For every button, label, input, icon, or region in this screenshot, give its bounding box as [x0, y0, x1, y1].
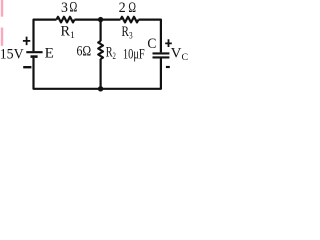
- svg-text:10μF: 10μF: [123, 47, 145, 63]
- resistor R3 zigzag: [121, 17, 139, 23]
- capacitor C bottom plate: [153, 56, 170, 58]
- svg-text:E: E: [45, 45, 54, 61]
- svg-text:6Ω: 6Ω: [77, 44, 92, 60]
- svg-text:C: C: [147, 36, 156, 52]
- page margin stripe (pink) upper segment: [1, 0, 3, 17]
- capacitor C top plate: [153, 52, 170, 54]
- wire: top-right corner (R3 to capacitor top): [139, 20, 161, 53]
- page margin stripe (pink) lower segment: [1, 28, 3, 46]
- wire: top middle segment (R1 to R3 through node A): [75, 19, 121, 21]
- wire: top-left corner (battery top to R1): [34, 20, 57, 52]
- wire: middle branch upper (node A to R2): [99, 20, 101, 42]
- battery E long positive plate: [26, 51, 42, 53]
- node B: bottom junction dot: [98, 86, 103, 91]
- svg-text:3: 3: [61, 0, 68, 16]
- capacitor voltage minus sign: [166, 66, 170, 68]
- wire: bottom-left (battery bottom to node B): [34, 58, 101, 89]
- wire: middle branch lower (R2 to node B): [99, 59, 101, 89]
- resistor R1 zigzag: [57, 17, 75, 23]
- node A: top junction dot: [98, 17, 103, 22]
- battery E short negative plate: [31, 55, 38, 58]
- svg-text:2: 2: [119, 0, 126, 16]
- svg-text:Ω: Ω: [128, 0, 136, 16]
- svg-text:Ω: Ω: [69, 0, 77, 16]
- battery polarity minus sign: [23, 66, 31, 68]
- capacitor voltage plus sign: [165, 39, 172, 47]
- battery polarity plus sign: [23, 37, 30, 46]
- svg-text:15V: 15V: [0, 46, 24, 62]
- resistor R2 zigzag: [98, 41, 103, 59]
- wire: bottom-right (node B to capacitor bottom): [101, 58, 161, 88]
